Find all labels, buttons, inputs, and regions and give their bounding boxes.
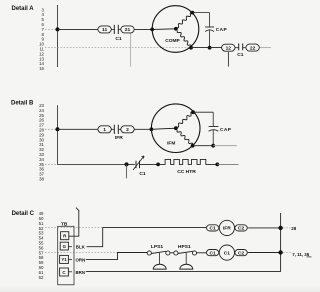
svg-text:C1: C1 <box>224 250 231 256</box>
svg-text:7, 11, 35: 7, 11, 35 <box>292 252 309 257</box>
svg-text:CAP: CAP <box>216 27 228 33</box>
svg-text:11: 11 <box>102 27 107 33</box>
svg-text:21: 21 <box>125 27 131 33</box>
svg-text:C1: C1 <box>237 52 244 58</box>
svg-text:Detail A: Detail A <box>12 6 35 12</box>
svg-text:IFR: IFR <box>223 226 231 232</box>
svg-text:28: 28 <box>291 226 296 231</box>
svg-text:BRN: BRN <box>76 270 86 275</box>
svg-text:IFR: IFR <box>115 135 123 141</box>
svg-text:C1: C1 <box>139 171 146 177</box>
svg-text:C1: C1 <box>209 250 216 256</box>
svg-text:CC HTR: CC HTR <box>177 169 196 175</box>
svg-text:22: 22 <box>250 45 256 51</box>
svg-text:62: 62 <box>39 275 44 280</box>
svg-text:C2: C2 <box>238 250 245 256</box>
svg-text:Detail C: Detail C <box>12 211 35 217</box>
svg-text:38: 38 <box>39 177 44 182</box>
svg-text:C1: C1 <box>115 36 122 42</box>
svg-text:IFM: IFM <box>167 140 175 146</box>
svg-text:ORN: ORN <box>76 257 86 262</box>
svg-text:G: G <box>63 244 67 249</box>
svg-text:C1: C1 <box>209 226 216 232</box>
svg-text:COMP: COMP <box>165 38 180 44</box>
svg-text:15: 15 <box>39 66 44 71</box>
svg-text:2: 2 <box>126 127 129 133</box>
svg-text:Detail B: Detail B <box>11 101 34 107</box>
svg-text:LPS1: LPS1 <box>151 244 164 250</box>
svg-text:1: 1 <box>103 127 106 133</box>
svg-text:12: 12 <box>226 46 232 52</box>
svg-text:Y1: Y1 <box>61 257 67 262</box>
svg-text:BLK: BLK <box>76 244 86 249</box>
svg-text:C2: C2 <box>238 226 245 232</box>
svg-text:HPS1: HPS1 <box>178 244 191 250</box>
svg-text:CAP: CAP <box>220 127 232 133</box>
